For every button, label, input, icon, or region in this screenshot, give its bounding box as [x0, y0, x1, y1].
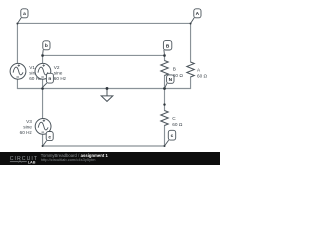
svg-text:LAB: LAB: [28, 160, 36, 164]
svg-text:B: B: [166, 44, 170, 50]
svg-text:B: B: [173, 67, 176, 72]
svg-text:N: N: [169, 77, 173, 83]
svg-text:V1: V1: [29, 65, 35, 70]
svg-text:60 Hz: 60 Hz: [54, 76, 67, 81]
svg-text:60 Ω: 60 Ω: [172, 122, 183, 127]
svg-text:b: b: [45, 43, 48, 49]
svg-text:V2: V2: [54, 65, 60, 70]
svg-text:c: c: [171, 134, 174, 139]
svg-text:A: A: [196, 11, 200, 17]
svg-text:a: a: [23, 12, 26, 17]
svg-text:http://circuitlab.com/c4s3y5yt: http://circuitlab.com/c4s3y5ytm: [41, 157, 96, 162]
svg-text:60 Ω: 60 Ω: [197, 73, 208, 78]
svg-text:60 Hz: 60 Hz: [20, 130, 33, 135]
svg-text:V3: V3: [26, 119, 32, 124]
svg-text:sine: sine: [54, 71, 63, 76]
svg-text:n: n: [48, 77, 51, 82]
svg-text:C: C: [172, 116, 176, 121]
svg-text:sine: sine: [23, 125, 32, 130]
svg-text:c: c: [48, 135, 51, 140]
